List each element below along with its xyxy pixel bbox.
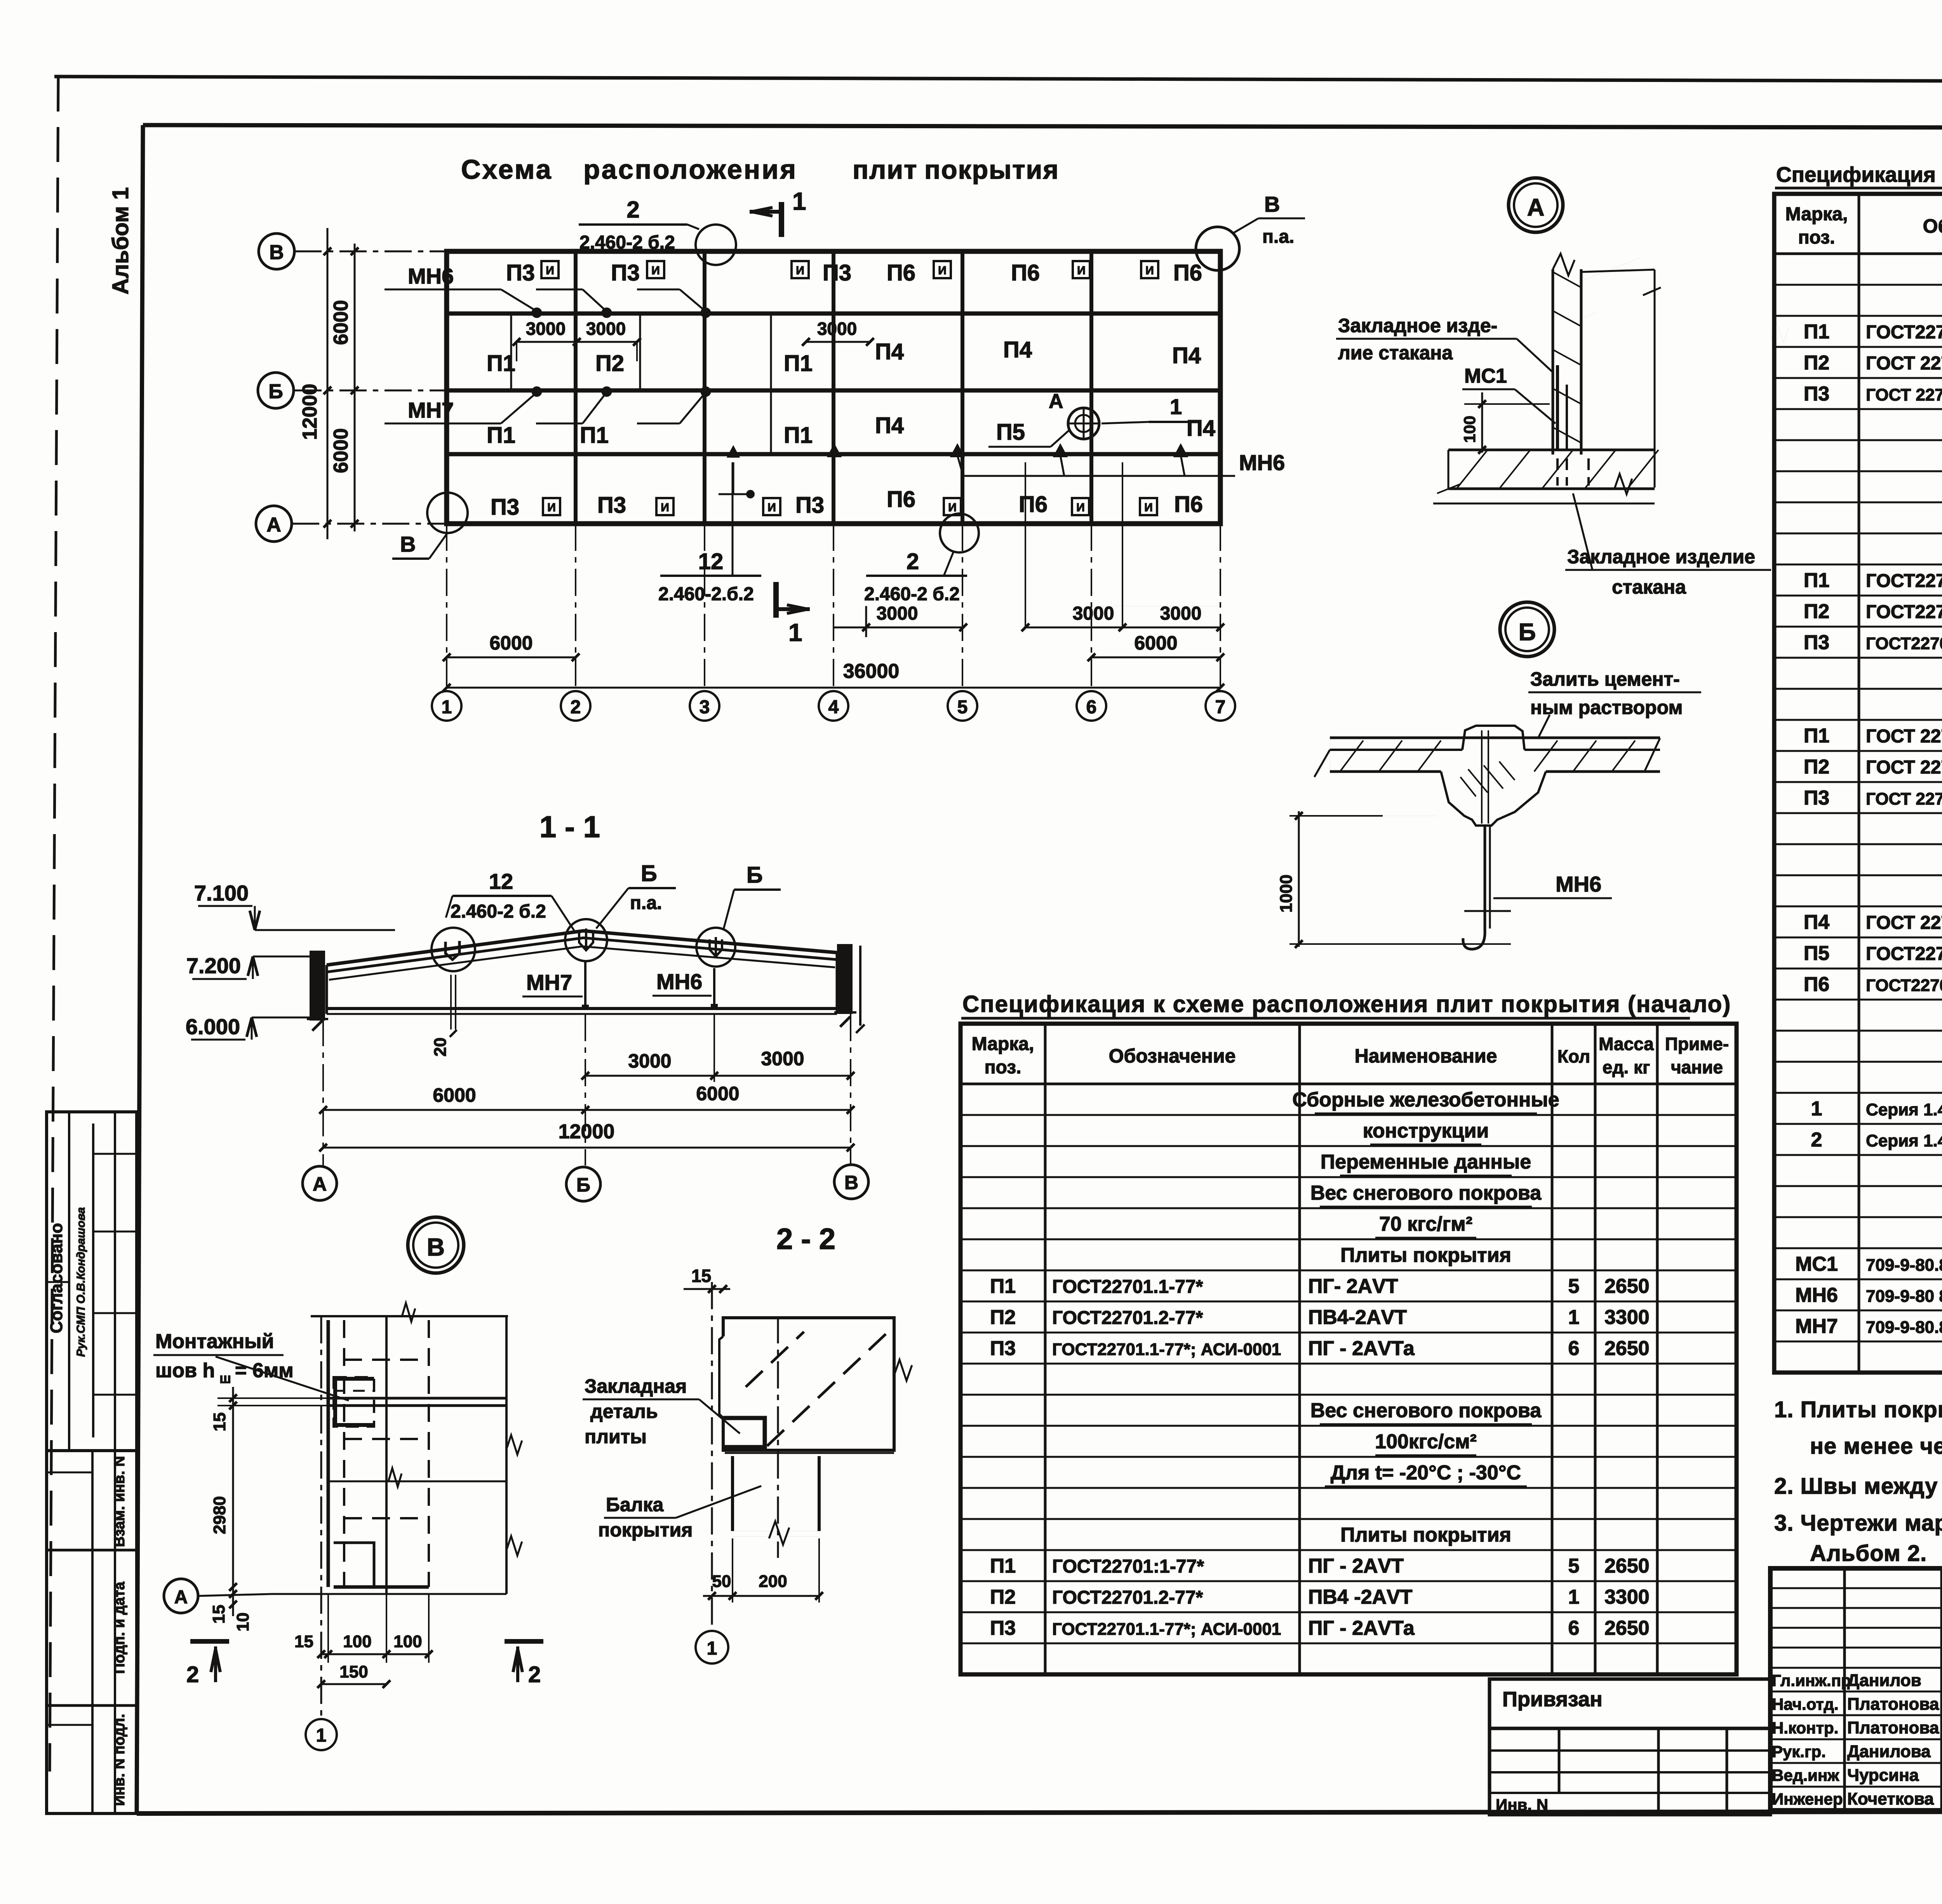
svg-text:Чурсина: Чурсина [1847,1766,1919,1785]
svg-text:15: 15 [209,1605,228,1624]
svg-text:3000: 3000 [628,1050,671,1072]
svg-text:ГОСТ 22701.1-77*;АСИ-0001: ГОСТ 22701.1-77*;АСИ-0001 [1866,789,1942,808]
svg-text:Схема: Схема [461,154,553,185]
svg-text:конструкции: конструкции [1363,1120,1489,1142]
detail В axis line 1 vertical [320,1316,322,1719]
svg-text:Обозначение: Обозначение [1923,215,1942,237]
svg-text:П1: П1 [487,351,515,376]
svg-text:П6: П6 [1173,260,1202,286]
svg-text:П2: П2 [1804,756,1829,778]
note 1 line 2 [1810,1434,1942,1459]
svg-text:3000: 3000 [1073,603,1114,624]
svg-text:5: 5 [957,697,968,718]
detail В grid circle А [164,1579,272,1613]
svg-text:15: 15 [691,1266,711,1286]
svg-text:200: 200 [759,1572,787,1591]
right spec table row grid lines [1774,285,1942,1341]
svg-text:лие стакана: лие стакана [1338,342,1453,364]
svg-text:6000: 6000 [330,428,352,473]
svg-text:1 - 1: 1 - 1 [539,810,600,844]
svg-text:Сборные железобетонные: Сборные железобетонные [1292,1089,1559,1111]
svg-text:Закладная: Закладная [585,1375,687,1397]
detail 2-2 grid circle 1 [696,1631,728,1664]
svg-text:В: В [269,241,284,264]
svg-text:Переменные данные: Переменные данные [1321,1151,1531,1173]
svg-text:ГОСТ22701.1-77*;АСИ-0001: ГОСТ22701.1-77*;АСИ-0001 [1866,976,1942,995]
svg-text:П1: П1 [1804,569,1829,592]
detail 2-2 label Балка покрытия [598,1486,761,1541]
elevation mark 6.000 [186,1014,311,1040]
svg-text:Для t= -20°C ; -30°C: Для t= -20°C ; -30°C [1331,1462,1521,1484]
svg-text:ш: ш [219,1370,231,1386]
outer sheet left border line [50,77,58,1772]
dimension text 6000 (lower bay) [330,428,352,473]
plan quality mark boxes row 4 [543,498,1157,515]
svg-text:П1: П1 [1804,321,1829,343]
svg-text:12000: 12000 [299,384,321,440]
callout МН7 left with leaders [385,387,710,423]
svg-text:П1: П1 [990,1555,1016,1577]
title block signature row lines [1770,1588,1942,1787]
plan internal horizontal plate joint lines [447,314,1220,454]
svg-text:Инв. N подл.: Инв. N подл. [111,1714,128,1806]
left margin approval stamp box (Согласовано) [47,1112,137,1451]
svg-text:7: 7 [1215,697,1226,718]
detail В panel edges vertical [328,1316,506,1594]
plan internal vertical column lines [576,251,1091,524]
album label Альбом 1 [108,187,133,294]
detail Б roof slabs horizontal [1314,738,1660,777]
detail Б label Залить цементным раствором [1528,668,1701,738]
middle spec table column lines [1045,1024,1657,1674]
section anchor МН7 with leader [522,961,588,1009]
svg-text:МН7: МН7 [408,398,454,422]
svg-text:П2: П2 [990,1306,1016,1329]
svg-text:Приме-: Приме- [1665,1034,1729,1054]
svg-text:И: И [547,501,556,514]
svg-text:плит: плит [853,155,917,185]
bottom dim 3000 3000 (axes 6-7) [1021,462,1224,631]
svg-text:П1: П1 [580,423,609,448]
svg-text:Спецификация к схеме расположе: Спецификация к схеме расположения плит п… [1776,162,1942,186]
grid circle А (row) [256,506,292,542]
section left column [307,952,328,1031]
callout МН6 top-left with leaders [385,264,710,317]
svg-text:не менее чем в трех точка: не менее чем в трех точках. [1810,1434,1942,1459]
svg-text:6: 6 [1568,1617,1580,1639]
detail В bottom lines [272,1543,506,1594]
svg-text:П1: П1 [990,1275,1016,1298]
svg-text:Н.контр.: Н.контр. [1772,1719,1838,1737]
svg-text:П3: П3 [491,495,519,520]
svg-text:ГОСТ 22701.1-77*: ГОСТ 22701.1-77* [1866,913,1942,933]
svg-text:2.460-2 б.2: 2.460-2 б.2 [864,584,960,604]
middle spec table title [961,991,1731,1018]
note 3 line 1 [1774,1510,1942,1536]
svg-text:12: 12 [698,549,724,574]
svg-text:покрытия: покрытия [924,155,1059,185]
svg-text:Спецификация к схеме расположе: Спецификация к схеме расположения плит п… [962,991,1731,1017]
svg-text:В: В [427,1233,445,1261]
detail Б cement key and rib [1441,726,1546,826]
svg-text:И: И [1144,501,1153,514]
svg-text:ГОСТ22701.1-77*; АСИ-0001: ГОСТ22701.1-77*; АСИ-0001 [1052,1620,1281,1639]
detail В break marks right edge [506,1435,522,1556]
svg-text:Наименование: Наименование [1355,1045,1497,1067]
svg-text:Привязан: Привязан [1502,1688,1603,1711]
right spec table column lines [1859,194,1942,1373]
right spec table title [1775,162,1942,188]
svg-text:В: В [844,1172,858,1193]
svg-text:6: 6 [1086,697,1097,718]
svg-text:2. Швы между плитами залить: 2. Швы между плитами залить цементным ра… [1774,1474,1942,1499]
detail А label МС1 [1462,365,1556,423]
svg-text:3000: 3000 [817,319,857,339]
svg-text:150: 150 [339,1662,368,1681]
svg-text:деталь: деталь [590,1401,658,1422]
svg-text:1. Плиты покрытия приварить: 1. Плиты покрытия приварить к закладным … [1774,1397,1942,1422]
bottom dim 3000 (axis 4) [834,603,967,637]
svg-text:П3: П3 [990,1617,1016,1639]
detail А wall hatched column [1553,254,1639,455]
svg-text:П3: П3 [1804,631,1829,654]
svg-text:6000: 6000 [433,1084,476,1106]
svg-text:1: 1 [788,618,802,646]
note 2 [1774,1474,1942,1499]
svg-text:П3: П3 [1804,787,1829,809]
callout МН6 right with leaders [828,445,1285,476]
section right column [834,946,865,1033]
plan inner dim 3000 3000 (bay 1-2 row 2) [513,319,641,361]
svg-text:расположения: расположения [583,154,797,185]
svg-text:П3: П3 [597,493,626,518]
svg-text:2: 2 [907,549,919,574]
svg-text:5: 5 [1568,1555,1580,1577]
svg-text:П3: П3 [611,260,640,286]
detail 2-2 dashed diagonal braces [746,1331,889,1446]
outer sheet top border line [54,77,1942,82]
svg-text:Серия 1.494-24 в.1: Серия 1.494-24 в.1 [1866,1100,1942,1119]
middle spec table row grid lines [961,1115,1737,1643]
svg-text:Плиты покрытия: Плиты покрытия [1340,1244,1511,1266]
elevation mark 7.100 [194,881,395,930]
svg-text:МН7: МН7 [1795,1315,1838,1338]
svg-text:Рук.гр.: Рук.гр. [1772,1742,1826,1761]
svg-text:А: А [1049,390,1063,413]
bottom dim 36000 overall [443,660,1224,692]
svg-text:Б: Б [1519,619,1536,646]
svg-text:А: А [174,1587,188,1608]
svg-text:Вес снегового покрова: Вес снегового покрова [1310,1399,1542,1422]
detail 2-2 centre dash-dot vertical [777,1316,779,1558]
svg-text:Б: Б [641,861,657,886]
svg-text:И: И [651,264,660,277]
svg-text:ГОСТ22701.2-77*: ГОСТ22701.2-77* [1052,1308,1203,1328]
svg-text:П2: П2 [1804,352,1829,374]
svg-text:МН6: МН6 [656,969,702,994]
svg-text:Обозначение: Обозначение [1109,1045,1236,1067]
detail В section mark 2 left [186,1641,229,1687]
svg-text:1: 1 [707,1638,717,1659]
svg-text:Альбом 2.: Альбом 2. [1810,1541,1927,1566]
svg-text:МН6: МН6 [1239,450,1285,475]
section anchor МН6 with leader [653,968,717,1009]
section grid circle А [303,1166,337,1200]
section beam bottom chord [327,953,837,1014]
bottom dim 6000 (axes 6-7) [1088,632,1224,661]
svg-text:1000: 1000 [1277,874,1296,913]
svg-text:12: 12 [489,869,513,894]
detail А floor slab [1433,450,1658,503]
svg-text:709-9-80.87ал.2 АСИ-0040.01: 709-9-80.87ал.2 АСИ-0040.01 [1866,1318,1942,1337]
svg-text:плиты: плиты [585,1426,647,1448]
svg-text:И: И [1076,501,1085,514]
grid circle Б (row) [258,373,294,408]
rotated text Инв. N подл. [111,1714,128,1806]
note 3 line 2 [1810,1541,1927,1566]
svg-text:П3: П3 [1804,383,1829,405]
svg-text:А: А [313,1173,327,1195]
section grid circle В [834,1165,868,1199]
svg-text:МС1: МС1 [1464,365,1507,387]
svg-text:МН6: МН6 [1795,1284,1838,1306]
svg-text:1: 1 [792,187,806,215]
detail В title circle [408,1217,464,1273]
section dim 6000 6000 [319,1083,854,1114]
svg-text:15: 15 [210,1413,229,1432]
svg-text:П2: П2 [990,1586,1016,1608]
svg-text:2 - 2: 2 - 2 [776,1223,835,1256]
svg-text:И: И [661,501,669,514]
detail 2-2 embedded plate thick L [723,1418,765,1449]
svg-text:ГОСТ 22701.2-77*: ГОСТ 22701.2-77* [1866,353,1942,374]
svg-text:6000: 6000 [1134,632,1177,654]
svg-text:2: 2 [186,1662,199,1687]
black joint dot on axis 3 mid [719,447,754,498]
svg-text:Б: Б [576,1174,590,1196]
corner callout В п.а. top-right [1196,192,1305,270]
section joint circle 3 (right) [696,928,735,967]
svg-text:Залить цемент-: Залить цемент- [1530,668,1680,690]
detail 2-2 dim 15 top [684,1266,730,1293]
svg-text:2: 2 [1811,1129,1822,1151]
svg-text:ным раствором: ным раствором [1530,697,1683,718]
svg-text:п.а.: п.а. [630,893,662,913]
svg-text:1: 1 [1811,1097,1822,1120]
svg-text:Закладное изде-: Закладное изде- [1338,315,1497,336]
grid axis line row А [292,523,447,525]
detail В label Монтажный шов [153,1330,349,1401]
svg-text:П4: П4 [875,339,904,364]
svg-text:И: И [767,501,776,514]
grid axis line row Б [294,390,447,392]
plan outer rectangle [447,251,1220,524]
svg-text:П3: П3 [506,260,535,286]
title block outer border [1770,1568,1942,1810]
svg-text:Данилов: Данилов [1847,1671,1921,1690]
svg-text:6.000: 6.000 [186,1014,240,1039]
plan slab labels row 4 (П3/П6) [491,487,1203,520]
plan column circles 1-7 [432,691,1235,721]
detail 2-2 break mark right [894,1360,912,1381]
anchored note box Привязан [1490,1679,1770,1728]
svg-text:Б: Б [747,862,763,888]
svg-text:3000: 3000 [877,603,918,624]
svg-text:Плиты покрытия: Плиты покрытия [1340,1524,1511,1546]
svg-text:шов h: шов h [155,1359,215,1382]
svg-text:3300: 3300 [1604,1306,1650,1329]
svg-text:Инв. N: Инв. N [1496,1796,1548,1814]
svg-text:1: 1 [316,1725,327,1746]
middle spec table header row [961,1034,1737,1084]
svg-text:покрытия: покрытия [598,1519,693,1541]
right spec table header row [1774,204,1942,254]
svg-text:10: 10 [233,1613,252,1632]
svg-text:4: 4 [828,697,839,718]
svg-text:И: И [546,264,554,277]
svg-text:2: 2 [571,697,581,718]
left vertical dimension line 6000+6000 [324,228,358,539]
svg-text:Взам. инв. N: Взам. инв. N [111,1456,128,1547]
svg-text:Нач.отд.: Нач.отд. [1772,1695,1839,1713]
svg-text:ПВ4 -2АVТ: ПВ4 -2АVТ [1308,1586,1413,1608]
svg-text:ГОСТ22701.2-77*: ГОСТ22701.2-77* [1866,602,1942,622]
svg-text:ГОСТ22701.1-77*: ГОСТ22701.1-77* [1052,1277,1203,1297]
svg-text:1: 1 [1568,1306,1580,1329]
svg-text:1: 1 [1568,1586,1580,1608]
svg-text:3000: 3000 [526,319,566,339]
detail Б label МН6 [1493,872,1612,898]
svg-text:100: 100 [1460,416,1479,443]
svg-text:МН6: МН6 [408,264,454,288]
svg-text:ПВ4-2АVТ: ПВ4-2АVТ [1308,1306,1407,1329]
svg-text:Данилова: Данилова [1847,1742,1931,1761]
svg-text:ГОСТ22701.1-77*; АСИ-0001: ГОСТ22701.1-77*; АСИ-0001 [1052,1340,1281,1359]
svg-text:МН7: МН7 [526,970,572,995]
svg-text:6000: 6000 [696,1083,739,1104]
svg-text:П4: П4 [1172,343,1201,368]
corner callout В bottom-left [392,493,468,559]
svg-text:Вес снегового покрова: Вес снегового покрова [1310,1182,1542,1204]
section mark 1 (top) [750,187,806,237]
svg-text:Вед.инж: Вед.инж [1772,1766,1839,1784]
svg-text:2: 2 [528,1662,541,1687]
svg-text:Инженер: Инженер [1772,1790,1843,1808]
svg-text:П6: П6 [1019,492,1048,517]
grid circle В (row) [259,233,294,269]
detail Б anchor rod with hook [1463,826,1511,949]
svg-text:МС1: МС1 [1795,1253,1838,1275]
svg-text:И: И [948,501,957,514]
detail 2-2 slab outline [719,1318,894,1453]
svg-text:Гл.инж.пр: Гл.инж.пр [1772,1671,1851,1690]
svg-text:ед. кг: ед. кг [1603,1057,1650,1077]
svg-text:100: 100 [393,1632,422,1651]
svg-text:Рук.СМП О.В.Кондрашова: Рук.СМП О.В.Кондрашова [75,1207,87,1357]
svg-text:П3: П3 [990,1337,1016,1360]
detail В left vertical dimension 15/2980/15/10 [209,1387,252,1631]
svg-text:П6: П6 [1011,260,1040,286]
left margin inventory stamp box (Инв. N) [47,1451,137,1813]
section label Б (right joint) [723,862,781,930]
dimension text 6000 (upper bay) [330,300,352,345]
svg-text:7.200: 7.200 [186,953,241,978]
svg-text:3000: 3000 [761,1048,804,1070]
svg-text:П6: П6 [887,260,915,286]
svg-text:3. Чертежи марки АСИ смотре: 3. Чертежи марки АСИ смотреть типовой пр… [1774,1510,1942,1536]
svg-text:ГОСТ22701.2-77*: ГОСТ22701.2-77* [1052,1587,1203,1608]
svg-text:5: 5 [1568,1275,1580,1298]
detail callout А on plan (П5 area) [988,390,1188,447]
svg-text:И: И [1145,264,1154,277]
detail В bottom dims 15 100 100 150 [294,1594,433,1688]
elevation mark 7.200 [186,953,311,979]
callout 12 bottom (2.460-2.б.2) [658,462,761,604]
svg-text:П5: П5 [996,420,1025,445]
detail В bottom grid circle 1 [306,1719,337,1750]
svg-text:ГОСТ 22701.1-77*;АСИ-0001.01: ГОСТ 22701.1-77*;АСИ-0001.01 [1866,385,1942,404]
svg-text:ГОСТ22701.1-77*: ГОСТ22701.1-77* [1866,322,1942,343]
detail 2-2 axis line vertical [711,1282,713,1630]
svg-text:100кгс/см²: 100кгс/см² [1375,1430,1477,1453]
plan slab labels row 1 (П3/П6) [506,260,1202,286]
svg-text:ПГ - 2АVТа: ПГ - 2АVТа [1308,1337,1415,1360]
svg-text:Платонова: Платонова [1847,1718,1939,1737]
section seam 20 mark [431,975,457,1056]
svg-text:12000: 12000 [559,1120,615,1143]
detail В mid horizontal line with break [328,1468,506,1487]
middle spec table outer border [961,1024,1737,1674]
svg-text:П4: П4 [1187,416,1215,441]
svg-text:2.460-2.б.2: 2.460-2.б.2 [658,584,754,604]
plan slab labels row 3 (П1 П1 П1 П4 П5 П4) [487,413,1215,448]
grid axis line row В [294,251,447,253]
svg-text:П6: П6 [1174,492,1203,517]
rotated text Согласовано [47,1223,66,1333]
svg-text:Подп. и дата: Подп. и дата [111,1582,128,1674]
svg-text:3000: 3000 [586,319,626,339]
detail А embedded item lines in wall [1557,365,1589,486]
svg-text:20: 20 [431,1038,450,1057]
svg-text:50: 50 [712,1572,731,1591]
svg-text:2650: 2650 [1604,1275,1650,1298]
rotated text Рук.СМП О.В.Кондрашова signature [75,1207,87,1357]
svg-text:Закладное изделие: Закладное изделие [1567,546,1755,568]
title block signature column lines [1845,1568,1942,1810]
section mark 1 (bottom) [776,582,810,646]
svg-text:Кол: Кол [1557,1046,1590,1066]
section dim 3000 3000 [581,1014,854,1082]
detail В embedded plate dashed box [334,1377,374,1427]
callout 2 bottom (2.460-2 б.2) [864,514,979,604]
detail 2-2 beam below [733,1456,819,1545]
plan quality mark boxes row 1 [541,261,1158,278]
plan slab labels row 2 (П1 П2 П1 П4 П4 П4) [487,337,1201,376]
svg-text:П2: П2 [595,351,624,376]
svg-text:15: 15 [294,1632,313,1651]
svg-text:Серия 1.494-24 в.1: Серия 1.494-24 в.1 [1866,1131,1942,1150]
svg-text:И: И [796,264,804,277]
detail 2-2 label Закладная деталь плиты [583,1375,740,1448]
rotated text Взам. инв. N [111,1456,128,1547]
detail callout 2 top (2.460-2 б.2) [579,197,736,265]
svg-text:100: 100 [343,1632,371,1651]
bottom dim 6000 (axes 1-2) [443,632,579,661]
svg-text:ГОСТ 22701.2-77*: ГОСТ 22701.2-77* [1866,757,1942,778]
section roof beam top chords [327,931,837,980]
svg-text:П2: П2 [1804,600,1829,623]
svg-text:3300: 3300 [1604,1586,1650,1608]
